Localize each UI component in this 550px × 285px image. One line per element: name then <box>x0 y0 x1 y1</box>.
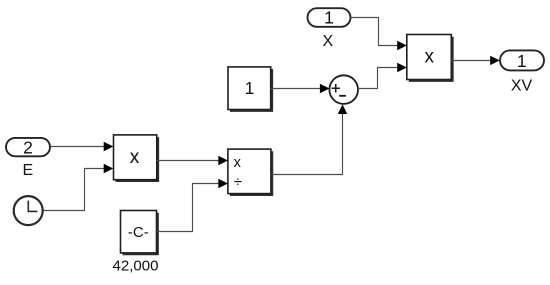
svg-text:X: X <box>322 33 333 50</box>
inport block X (oval "1") <box>308 8 351 28</box>
wire divide to sum <box>271 104 347 174</box>
svg-text:1: 1 <box>245 78 255 98</box>
product block left "x" <box>114 135 159 181</box>
svg-text:x: x <box>234 155 242 171</box>
clock block <box>14 196 43 225</box>
wire top product to outport XV <box>452 56 500 65</box>
svg-text:-C-: -C- <box>128 224 149 241</box>
label 42,000 <box>113 258 159 275</box>
divide block x over divide <box>228 149 272 195</box>
svg-text:x: x <box>130 147 140 168</box>
label XV <box>511 77 533 94</box>
label X <box>322 33 333 50</box>
svg-text:1: 1 <box>324 8 334 28</box>
product block top "x" <box>407 35 453 81</box>
wire clock to left product <box>43 164 113 211</box>
wire E to left product <box>50 142 113 151</box>
svg-text:÷: ÷ <box>234 174 242 191</box>
label E <box>22 162 33 179</box>
wire constant -C- to divide <box>157 179 228 232</box>
svg-text:XV: XV <box>511 77 533 94</box>
inport block E (oval "2") <box>6 137 50 157</box>
wire left product to divide <box>157 156 228 165</box>
svg-text:2: 2 <box>23 137 33 157</box>
svg-text:E: E <box>22 162 33 179</box>
wire constant 1 to sum <box>271 84 330 93</box>
constant block -C- <box>121 211 158 255</box>
outport block XV (oval "1") <box>500 50 544 70</box>
svg-text:x: x <box>424 47 434 68</box>
svg-text:42,000: 42,000 <box>113 258 159 275</box>
wire inport X to top product <box>351 18 407 51</box>
wire sum to top product <box>358 63 407 89</box>
constant block "1" <box>228 67 272 111</box>
svg-text:1: 1 <box>517 51 527 71</box>
sum block (plus minus circle) <box>329 75 358 104</box>
